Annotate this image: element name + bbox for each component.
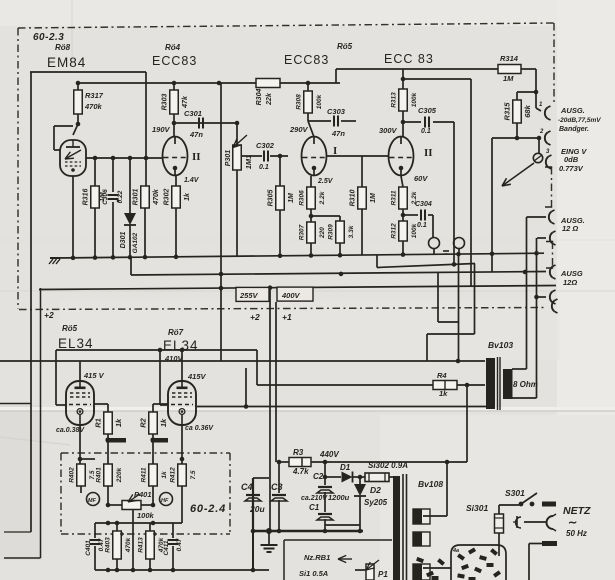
svg-text:R301: R301 [132,189,139,206]
svg-text:R309: R309 [327,224,334,240]
svg-text:0.1: 0.1 [421,128,431,135]
svg-text:0.773V: 0.773V [559,164,584,173]
svg-text:R303: R303 [161,94,168,111]
svg-text:415V: 415V [187,372,207,381]
svg-text:47n: 47n [189,130,203,139]
svg-text:100k: 100k [411,223,418,238]
svg-text:-20dB,77,5mV: -20dB,77,5mV [558,117,601,124]
svg-text:Si1 0.5A: Si1 0.5A [299,569,328,578]
svg-text:II: II [192,151,201,163]
svg-text:415 V: 415 V [83,371,105,380]
svg-text:C1: C1 [309,503,320,512]
svg-text:C4: C4 [241,482,253,492]
svg-text:8 Ohm: 8 Ohm [513,380,538,389]
svg-text:20u: 20u [249,504,265,514]
svg-text:+2: +2 [44,310,54,320]
svg-text:R307: R307 [298,224,305,240]
svg-text:0.1: 0.1 [417,222,427,229]
svg-text:12 Ω: 12 Ω [562,224,578,233]
svg-text:0.1: 0.1 [259,164,269,171]
svg-text:60-2.3: 60-2.3 [33,32,64,43]
svg-text:ECC83: ECC83 [284,53,329,67]
svg-text:C2: C2 [313,472,324,481]
svg-text:R413: R413 [137,537,144,553]
svg-text:Rö5: Rö5 [337,42,353,51]
svg-text:ECC 83: ECC 83 [384,52,434,66]
svg-text:100k: 100k [411,92,418,107]
svg-text:D301: D301 [120,232,127,249]
svg-text:R402: R402 [68,467,75,483]
svg-text:R412: R412 [169,467,176,483]
svg-text:C304: C304 [415,201,432,208]
svg-text:AUSG.: AUSG. [560,106,585,115]
svg-text:Sy205: Sy205 [364,498,388,507]
svg-text:ca.0.38V: ca.0.38V [56,427,85,434]
svg-text:R1: R1 [93,418,102,428]
svg-text:R302: R302 [163,189,170,206]
svg-text:3.3k: 3.3k [348,225,355,238]
svg-text:400V: 400V [281,291,301,300]
svg-text:470k: 470k [153,188,160,206]
svg-text:1M: 1M [370,193,377,203]
svg-text:ca.210V: ca.210V [301,495,328,502]
svg-text:1M: 1M [503,74,514,83]
svg-text:100k: 100k [137,511,155,520]
svg-text:220k: 220k [116,467,123,483]
svg-text:GA102: GA102 [132,232,139,253]
svg-text:68k: 68k [523,104,532,117]
svg-text:50 Hz: 50 Hz [566,529,587,538]
svg-text:ECC83: ECC83 [152,54,197,68]
svg-text:C3: C3 [271,482,283,492]
svg-text:1M: 1M [288,193,295,203]
svg-text:Nz.RB1: Nz.RB1 [304,553,330,562]
svg-text:4a: 4a [452,548,459,554]
svg-text:2: 2 [539,129,544,135]
svg-text:R310: R310 [349,190,356,207]
svg-text:60V: 60V [414,174,428,183]
svg-text:22k: 22k [266,92,273,106]
svg-text:P1: P1 [378,570,388,579]
svg-text:190V: 190V [152,125,171,134]
svg-text:100k: 100k [316,94,323,109]
svg-text:300V: 300V [379,126,398,135]
svg-text:C306: C306 [102,189,109,205]
svg-text:R4: R4 [437,371,447,380]
svg-text:C302: C302 [256,141,275,150]
svg-text:290V: 290V [289,125,309,134]
svg-text:C411: C411 [163,540,170,555]
svg-text:Rö4: Rö4 [165,43,181,52]
svg-text:R313: R313 [390,92,397,108]
svg-text:12Ω: 12Ω [563,278,577,287]
svg-text:1200u: 1200u [328,493,350,502]
svg-text:D1: D1 [340,463,351,472]
svg-text:R311: R311 [390,190,397,205]
svg-text:R401: R401 [95,467,102,483]
svg-text:Si302 0.9A: Si302 0.9A [368,461,408,470]
svg-text:R314: R314 [500,54,519,63]
svg-text:C303: C303 [327,107,346,116]
svg-text:Rö7: Rö7 [168,328,184,337]
svg-text:HF: HF [161,498,169,504]
svg-text:4.7k: 4.7k [292,467,309,476]
svg-text:7.5: 7.5 [190,470,197,479]
svg-text:0.47: 0.47 [176,538,183,551]
svg-text:P401: P401 [134,490,152,499]
svg-text:R403: R403 [104,537,111,553]
svg-text:1k: 1k [161,471,168,479]
svg-text:Bv103: Bv103 [488,340,513,350]
svg-text:47k: 47k [182,95,189,109]
svg-text:+2: +2 [250,312,260,322]
svg-text:R316: R316 [82,189,89,206]
svg-text:C305: C305 [418,106,437,115]
svg-text:1k: 1k [184,192,191,201]
svg-text:+1: +1 [282,312,292,322]
svg-text:1k: 1k [114,418,123,427]
svg-text:2.2k: 2.2k [319,191,326,205]
svg-text:47n: 47n [331,129,345,138]
svg-text:MF: MF [88,498,97,504]
svg-text:1k: 1k [439,389,448,398]
svg-text:R315: R315 [502,102,511,121]
svg-text:470k: 470k [84,102,103,111]
svg-text:Si301: Si301 [466,503,488,513]
svg-text:470k: 470k [125,537,132,553]
svg-text:2.5V: 2.5V [317,178,334,185]
svg-text:1M1: 1M1 [244,155,253,170]
svg-text:NETZ: NETZ [563,505,591,517]
svg-text:R312: R312 [390,223,397,239]
svg-text:R305: R305 [267,190,274,207]
svg-text:R308: R308 [295,94,302,110]
svg-text:R3: R3 [293,448,304,457]
svg-text:R304: R304 [256,89,263,106]
svg-text:Bv108: Bv108 [418,479,443,489]
svg-text:ca 0.36V: ca 0.36V [185,425,214,432]
svg-text:Rö5: Rö5 [62,324,78,333]
svg-text:R411: R411 [140,467,147,482]
svg-text:EM84: EM84 [47,55,86,70]
svg-text:220: 220 [319,227,326,239]
svg-text:1.4V: 1.4V [184,177,200,184]
svg-text:1k: 1k [159,418,168,427]
svg-text:D2: D2 [370,485,381,495]
svg-text:0dB: 0dB [564,155,579,164]
svg-text:C301: C301 [184,109,202,118]
svg-text:P301: P301 [225,150,232,166]
svg-text:EL34: EL34 [58,336,94,351]
svg-text:S301: S301 [505,488,525,498]
svg-text:R306: R306 [298,190,305,206]
svg-text:II: II [424,147,433,159]
svg-text:C401: C401 [85,540,92,556]
svg-text:60-2.4: 60-2.4 [190,503,226,515]
svg-text:255V: 255V [239,291,259,300]
svg-text:∼: ∼ [568,517,577,529]
svg-text:440V: 440V [319,450,339,459]
svg-text:Rö8: Rö8 [55,43,71,52]
svg-text:AUSG: AUSG [560,269,583,278]
svg-text:Bandger.: Bandger. [559,126,589,133]
svg-text:R317: R317 [85,91,104,100]
svg-text:R2: R2 [138,417,147,427]
